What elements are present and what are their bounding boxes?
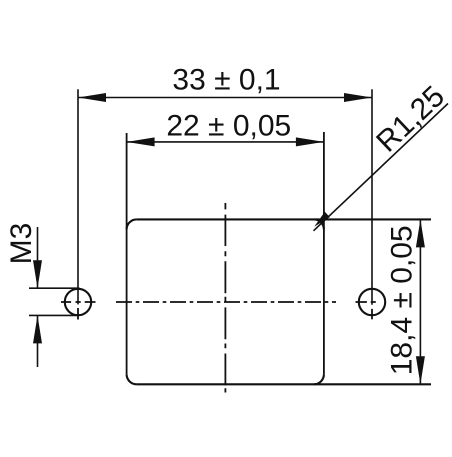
- dimension line 18.4: [419, 219, 421, 384]
- arrow right of 22 dim: [296, 137, 324, 146]
- cutout rectangle top edge with extension to 18.4 dim: [137, 218, 431, 220]
- arrow bottom of 18.4 dim: [416, 356, 425, 384]
- corner arc top-left R1.25: [127, 219, 137, 229]
- arrow right of 33 dim: [344, 93, 372, 102]
- right hole crosshair horizontal: [356, 301, 376, 303]
- cutout rectangle right edge with extension line for 22 dim: [323, 132, 325, 374]
- svg-text:R1,25: R1,25: [370, 80, 451, 159]
- svg-text:22 ± 0,05: 22 ± 0,05: [166, 110, 291, 143]
- dimension line 22: [127, 141, 324, 143]
- left mounting hole M3: [65, 289, 91, 315]
- left hole crosshair vertical lower segment: [77, 308, 79, 320]
- svg-text:18,4 ± 0,05: 18,4 ± 0,05: [386, 225, 419, 375]
- M3 extension line top: [29, 287, 80, 289]
- svg-text:33 ± 0,1: 33 ± 0,1: [172, 64, 280, 97]
- corner arc bottom-right R1.25: [314, 374, 324, 384]
- arrow top of 18.4 dim: [416, 219, 425, 247]
- corner arc bottom-left R1.25: [127, 374, 137, 384]
- M3 arrow pointing down: [33, 260, 42, 288]
- arrow left of 22 dim: [127, 137, 155, 146]
- svg-text:M3: M3: [5, 223, 38, 265]
- leader arrow R1.25: [314, 212, 330, 227]
- dimension line 33: [78, 97, 372, 99]
- M3 dimension line upper segment: [37, 227, 39, 288]
- M3 extension line bottom: [29, 314, 77, 316]
- M3 arrow pointing up: [33, 315, 42, 343]
- vertical centerline dash-dot: [224, 203, 226, 393]
- corner arc top-right R1.25: [314, 219, 324, 229]
- left hole crosshair horizontal: [61, 301, 96, 303]
- horizontal centerline dash-dot: [116, 301, 336, 303]
- right hole crosshair vertical lower segment: [371, 309, 373, 319]
- extension line left (33 dim, through left hole): [77, 89, 79, 304]
- cutout rectangle left edge with extension line for 22 dim: [126, 133, 128, 374]
- arrow left of 33 dim: [78, 93, 106, 102]
- leader line R1.25: [314, 104, 449, 231]
- cutout rectangle bottom edge with extension to 18.4 dim: [137, 383, 431, 385]
- right mounting hole M3: [359, 289, 385, 315]
- M3 dimension line lower segment: [37, 315, 39, 367]
- extension line right (33 dim, through right hole): [371, 89, 373, 304]
